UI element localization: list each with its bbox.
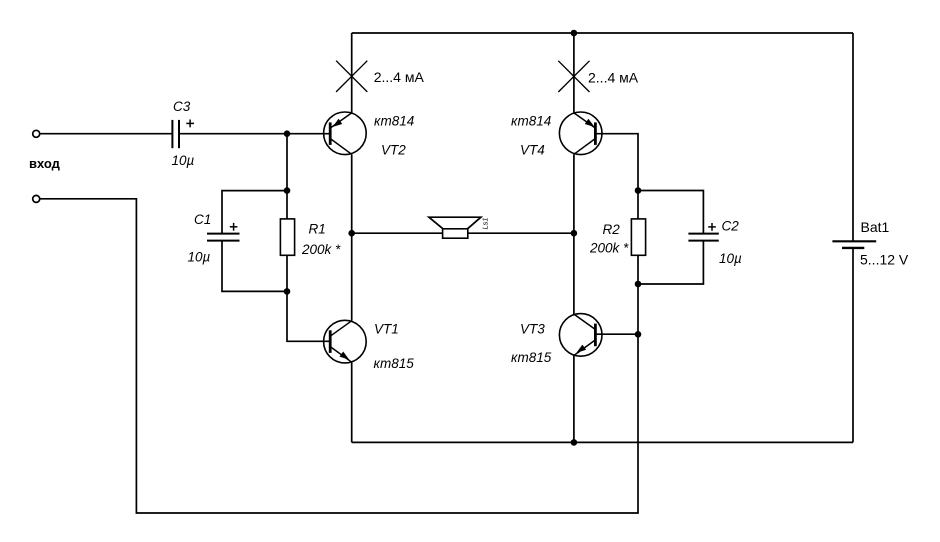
- svg-text:вход: вход: [29, 156, 61, 171]
- node base VT2: [284, 130, 291, 137]
- transistor VT2: [324, 112, 415, 157]
- svg-text:C2: C2: [722, 219, 740, 234]
- input terminal 2: [33, 195, 40, 202]
- wire C1 top lead: [222, 191, 287, 234]
- transistor VT4: [511, 112, 602, 157]
- wire top rail: [352, 32, 853, 34]
- svg-text:C1: C1: [194, 212, 211, 227]
- svg-text:Ls1: Ls1: [481, 217, 490, 229]
- transistor VT1: [324, 320, 415, 371]
- wire VT4 emitter up: [573, 33, 575, 113]
- svg-text:кт815: кт815: [511, 350, 552, 365]
- node R1 bottom: [284, 288, 291, 295]
- wire VT1 emitter down: [351, 362, 353, 442]
- wire speaker right: [468, 232, 574, 234]
- svg-text:2...4 мА: 2...4 мА: [374, 69, 425, 85]
- svg-text:кт814: кт814: [374, 114, 414, 129]
- node speaker right: [571, 230, 578, 237]
- svg-text:кт814: кт814: [511, 114, 551, 129]
- svg-text:Bat1: Bat1: [861, 219, 890, 235]
- wire C2 bottom lead: [638, 241, 703, 284]
- battery Bat1: [832, 219, 909, 267]
- wire VT4 collector to VT3 collector: [573, 154, 575, 314]
- node R2 bottom: [635, 281, 642, 288]
- svg-text:R2: R2: [603, 222, 621, 237]
- wire input top: [39, 133, 172, 135]
- wire R2 bottom to VT3 base node: [637, 284, 639, 334]
- wire VT3 base: [595, 333, 638, 335]
- wire to VT1 base: [287, 291, 330, 341]
- wire speaker left: [352, 232, 443, 234]
- capacitor C2: [688, 219, 742, 266]
- svg-text:200k *: 200k *: [589, 240, 629, 255]
- svg-text:VT3: VT3: [520, 322, 545, 337]
- svg-text:10µ: 10µ: [172, 153, 195, 168]
- wire R1 bottom lead: [286, 255, 288, 291]
- resistor R2: [589, 219, 646, 255]
- wire C3 to VT2 base: [179, 133, 330, 135]
- node VT3 base: [635, 331, 642, 338]
- wire VT3 emitter down: [573, 356, 575, 443]
- transistor VT3: [511, 314, 602, 366]
- current mark right: [558, 61, 638, 92]
- svg-text:VT1: VT1: [374, 322, 399, 337]
- wire node down: [286, 134, 288, 191]
- wire VT2 collector to VT1 collector: [351, 154, 353, 320]
- wire battery top lead: [852, 33, 854, 241]
- wire R1 top lead: [286, 191, 288, 219]
- wire emitter rail: [352, 441, 853, 443]
- wire C1 bottom lead: [222, 241, 287, 292]
- svg-text:R1: R1: [309, 222, 326, 237]
- svg-text:200k *: 200k *: [301, 242, 341, 257]
- wire VT2 emitter up: [351, 33, 353, 113]
- capacitor C3: [172, 99, 195, 168]
- speaker Ls1: [429, 217, 490, 238]
- svg-text:10µ: 10µ: [719, 251, 742, 266]
- wire VT4 base to R2 node: [595, 134, 638, 191]
- node speaker left: [348, 230, 355, 237]
- svg-text:10µ: 10µ: [188, 250, 211, 265]
- wire return to input: [39, 199, 638, 513]
- input terminal 1: [33, 130, 40, 137]
- wire C2 top lead: [638, 191, 703, 234]
- svg-text:C3: C3: [173, 99, 191, 114]
- wire R2 top lead: [637, 191, 639, 219]
- svg-text:2...4 мА: 2...4 мА: [588, 69, 639, 85]
- node R2 top: [635, 187, 642, 194]
- wire battery bottom lead: [852, 248, 854, 443]
- svg-text:5...12 V: 5...12 V: [860, 252, 909, 268]
- node top rail: [571, 30, 578, 37]
- svg-text:кт815: кт815: [374, 356, 415, 371]
- svg-text:VT4: VT4: [520, 142, 545, 157]
- node R1 top: [284, 187, 291, 194]
- current mark left: [336, 61, 424, 92]
- resistor R1: [280, 219, 341, 257]
- wire R2 bottom lead: [637, 255, 639, 284]
- svg-text:VT2: VT2: [381, 142, 406, 157]
- capacitor C1: [188, 212, 240, 265]
- node emitter rail: [571, 439, 578, 446]
